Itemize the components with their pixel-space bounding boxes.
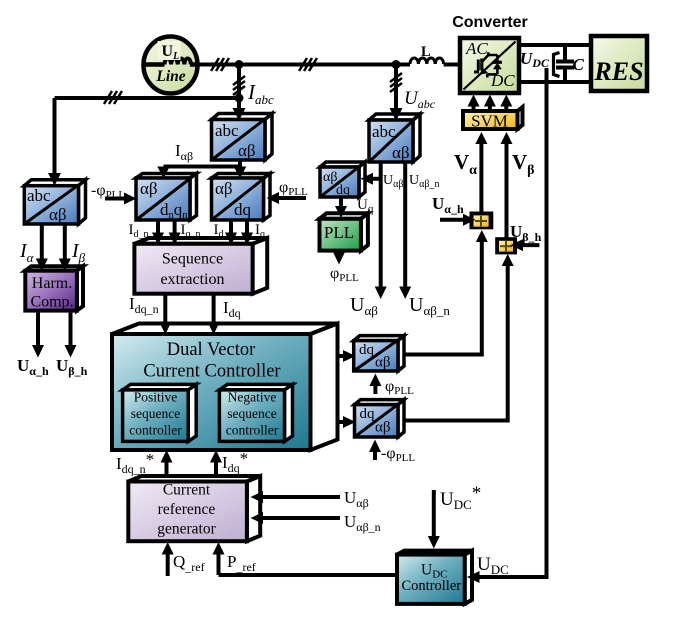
svg-text:Uαβ: Uαβ bbox=[350, 294, 378, 318]
svg-text:Iq_n: Iq_n bbox=[181, 222, 201, 240]
svg-text:abc: abc bbox=[27, 186, 51, 205]
svg-text:Uβ_h: Uβ_h bbox=[56, 356, 88, 378]
svg-text:Line: Line bbox=[155, 68, 185, 85]
svg-text:extraction: extraction bbox=[161, 271, 225, 288]
svg-text:UDC: UDC bbox=[520, 49, 550, 70]
svg-text:controller: controller bbox=[226, 423, 279, 438]
svg-text:UDC*: UDC* bbox=[440, 483, 481, 512]
svg-text:Uabc: Uabc bbox=[404, 88, 436, 111]
svg-text:Uα_h: Uα_h bbox=[17, 356, 49, 378]
svg-text:αβ: αβ bbox=[375, 420, 391, 436]
svg-text:φPLL: φPLL bbox=[279, 179, 308, 198]
svg-text:αβ: αβ bbox=[375, 355, 391, 371]
svg-text:Dual Vector: Dual Vector bbox=[167, 340, 256, 360]
svg-text:Id_n: Id_n bbox=[129, 222, 149, 240]
svg-text:Sequence: Sequence bbox=[162, 251, 223, 268]
svg-text:αβ: αβ bbox=[49, 205, 67, 224]
svg-text:αβ: αβ bbox=[215, 179, 233, 198]
svg-text:αβ: αβ bbox=[140, 179, 158, 198]
svg-text:-φPLL: -φPLL bbox=[381, 445, 415, 464]
svg-text:reference: reference bbox=[158, 501, 216, 518]
svg-text:generator: generator bbox=[157, 521, 216, 538]
svg-text:Idq: Idq bbox=[223, 298, 241, 320]
svg-text:Uq: Uq bbox=[357, 197, 374, 215]
svg-text:AC: AC bbox=[465, 39, 488, 58]
svg-text:Uβ_h: Uβ_h bbox=[510, 222, 542, 244]
svg-text:Idq_n*: Idq_n* bbox=[116, 450, 154, 476]
svg-text:Negative: Negative bbox=[228, 390, 277, 405]
svg-text:Iα: Iα bbox=[19, 240, 35, 265]
svg-text:C: C bbox=[573, 55, 585, 74]
svg-text:Uαβ_n: Uαβ_n bbox=[344, 512, 381, 534]
svg-text:L: L bbox=[421, 44, 431, 60]
svg-text:Vα: Vα bbox=[454, 150, 477, 178]
svg-text:dq: dq bbox=[359, 342, 375, 358]
svg-text:PLL: PLL bbox=[324, 223, 354, 242]
svg-text:Id: Id bbox=[214, 222, 224, 240]
svg-text:P_ref: P_ref bbox=[227, 552, 256, 574]
svg-text:Iβ: Iβ bbox=[71, 240, 86, 265]
svg-text:Current: Current bbox=[163, 482, 211, 499]
svg-text:dq: dq bbox=[336, 183, 350, 198]
svg-text:sequence: sequence bbox=[131, 406, 180, 421]
svg-text:φPLL: φPLL bbox=[385, 378, 414, 397]
svg-text:SVM: SVM bbox=[471, 112, 508, 131]
svg-text:Uαβ: Uαβ bbox=[383, 173, 403, 190]
svg-text:-φPLL: -φPLL bbox=[91, 182, 125, 201]
svg-text:sequence: sequence bbox=[227, 406, 276, 421]
svg-text:Uαβ: Uαβ bbox=[344, 488, 369, 510]
svg-text:Q_ref: Q_ref bbox=[173, 552, 205, 574]
svg-text:φPLL: φPLL bbox=[330, 265, 359, 284]
svg-text:Uαβ_n: Uαβ_n bbox=[409, 294, 450, 318]
svg-text:Idq_n: Idq_n bbox=[129, 294, 159, 316]
svg-text:αβ: αβ bbox=[392, 143, 410, 162]
svg-text:Uα_h: Uα_h bbox=[432, 194, 464, 216]
svg-text:Converter: Converter bbox=[452, 14, 528, 31]
svg-text:DC: DC bbox=[490, 71, 515, 90]
svg-text:RES: RES bbox=[593, 57, 643, 86]
svg-text:Current Controller: Current Controller bbox=[143, 362, 280, 382]
svg-text:dq: dq bbox=[360, 406, 376, 422]
svg-text:abc: abc bbox=[215, 121, 239, 140]
svg-text:dq: dq bbox=[234, 200, 252, 219]
svg-text:Harm.: Harm. bbox=[32, 275, 72, 292]
svg-text:Uαβ_n: Uαβ_n bbox=[409, 173, 439, 190]
svg-text:Controller: Controller bbox=[402, 578, 462, 594]
svg-text:Vβ: Vβ bbox=[512, 150, 535, 178]
svg-text:Idq*: Idq* bbox=[222, 449, 248, 475]
svg-text:UDC: UDC bbox=[477, 554, 509, 577]
svg-text:abc: abc bbox=[372, 122, 396, 141]
svg-text:Positive: Positive bbox=[134, 390, 178, 405]
svg-text:controller: controller bbox=[129, 423, 182, 438]
svg-text:Iabc: Iabc bbox=[247, 80, 274, 107]
svg-text:Comp.: Comp. bbox=[30, 294, 73, 311]
svg-text:αβ: αβ bbox=[238, 141, 256, 160]
svg-text:Iq: Iq bbox=[255, 222, 265, 240]
svg-text:Iαβ: Iαβ bbox=[175, 141, 193, 163]
